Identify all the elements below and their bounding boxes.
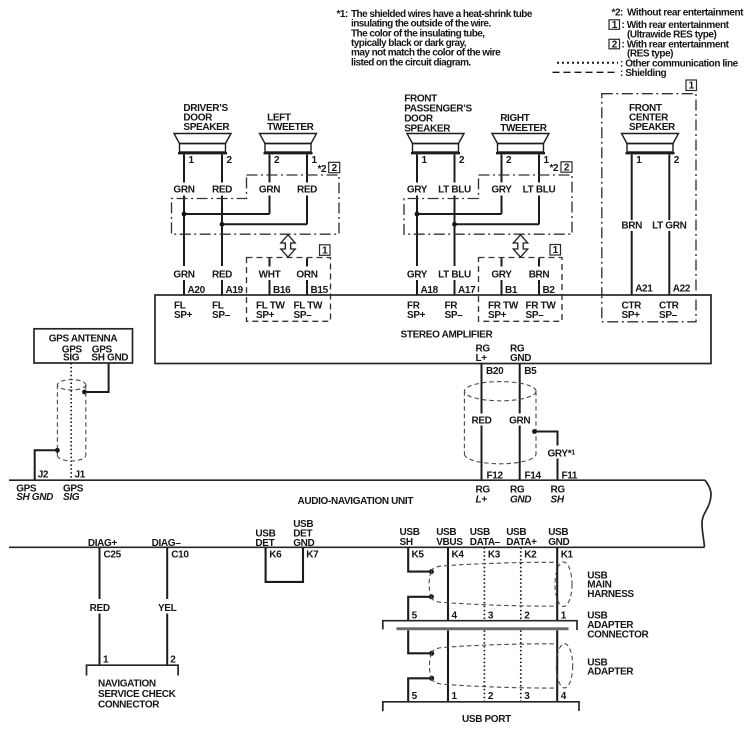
svg-text:LT GRN: LT GRN bbox=[652, 221, 687, 232]
driver's door speaker pin 2 bbox=[222, 155, 233, 183]
svg-text:2: 2 bbox=[488, 691, 494, 702]
svg-text:SP+: SP+ bbox=[407, 310, 426, 321]
svg-text:2: 2 bbox=[332, 163, 338, 174]
audio-navigation unit bottom edge bbox=[9, 546, 705, 548]
svg-text:RED: RED bbox=[212, 269, 232, 280]
left tweeter symbol bbox=[260, 134, 317, 154]
svg-text:Without rear entertainment: Without rear entertainment bbox=[627, 8, 744, 19]
svg-text:2: 2 bbox=[227, 155, 233, 166]
amp pin label RG L+ bbox=[476, 343, 491, 364]
legend boxed-2 entry bbox=[609, 39, 730, 59]
svg-text:ADAPTER: ADAPTER bbox=[587, 667, 634, 678]
driver's door speaker pin 1 bbox=[184, 155, 195, 183]
svg-text:K5: K5 bbox=[412, 550, 425, 561]
wire ORN stub bbox=[306, 258, 308, 266]
svg-text:*2: *2 bbox=[318, 164, 328, 175]
wire USB SH to adapter connector bbox=[408, 597, 431, 621]
svg-text:B5: B5 bbox=[524, 366, 537, 377]
svg-text:CONNECTOR: CONNECTOR bbox=[587, 629, 649, 640]
wire GPS SH GND bbox=[85, 363, 109, 392]
front passenger's door speaker symbol bbox=[407, 134, 464, 154]
front center speaker pin 1 bbox=[632, 155, 643, 221]
junction dot left RED bbox=[220, 222, 225, 227]
svg-text:SP–: SP– bbox=[212, 310, 231, 321]
svg-text:1: 1 bbox=[322, 246, 328, 257]
svg-text:: Shielding: : Shielding bbox=[620, 68, 667, 79]
wire joining left tweeter RED to A19 bbox=[222, 223, 307, 225]
svg-text:J2: J2 bbox=[38, 469, 49, 480]
shield junction dot GPS top bbox=[82, 390, 87, 395]
amp pin label RG GND bbox=[510, 343, 531, 364]
svg-text:SIG: SIG bbox=[63, 352, 80, 363]
wire joining right tweeter LT BLU to A17 bbox=[455, 223, 540, 225]
unit label USB DATA- bbox=[470, 527, 501, 548]
svg-text:1: 1 bbox=[553, 245, 559, 256]
svg-text:RED: RED bbox=[297, 185, 317, 196]
svg-text:GPS ANTENNA: GPS ANTENNA bbox=[49, 334, 118, 345]
driver's door speaker label bbox=[183, 103, 230, 133]
shield cylinder GPS bbox=[57, 380, 85, 461]
svg-text:2: 2 bbox=[564, 162, 570, 173]
svg-text:listed on the circuit diagram.: listed on the circuit diagram. bbox=[351, 57, 471, 68]
unit label GPS SH GND bbox=[16, 484, 53, 503]
amp pin label FL TW SP+ bbox=[256, 301, 286, 322]
pin A20 tick bbox=[184, 280, 206, 296]
stereo amplifier box bbox=[155, 295, 711, 364]
svg-text:SP–: SP– bbox=[659, 310, 678, 321]
amp pin label FL TW SP- bbox=[294, 301, 324, 322]
USB adapter label bbox=[587, 657, 634, 677]
wire joining left tweeter GRN to A20 bbox=[184, 213, 270, 215]
unit label GPS SIG bbox=[63, 484, 84, 503]
svg-text:TWEETER: TWEETER bbox=[500, 123, 548, 134]
shield junction dot GPS bottom bbox=[55, 448, 60, 453]
wire USB SH upper zigzag bbox=[408, 547, 431, 571]
svg-text:K6: K6 bbox=[269, 550, 282, 561]
svg-text:SP–: SP– bbox=[294, 310, 313, 321]
svg-text:RED: RED bbox=[90, 603, 110, 614]
wire RED B20 upper bbox=[482, 364, 505, 414]
svg-text:VBUS: VBUS bbox=[436, 537, 463, 548]
amp pin label CTR SP+ bbox=[622, 301, 643, 322]
svg-text:SP+: SP+ bbox=[488, 310, 507, 321]
USB main harness shield tube bbox=[429, 562, 572, 607]
svg-text:USB PORT: USB PORT bbox=[462, 714, 511, 725]
front passenger's door speaker pin 2 bbox=[455, 155, 466, 183]
svg-text:SERVICE CHECK: SERVICE CHECK bbox=[98, 689, 177, 700]
svg-text:SP+: SP+ bbox=[622, 310, 641, 321]
svg-text:STEREO AMPLIFIER: STEREO AMPLIFIER bbox=[401, 330, 494, 341]
double arrow right bbox=[513, 235, 527, 257]
unit label RG SH bbox=[551, 485, 566, 506]
wire USB SH lower zigzag bbox=[408, 630, 432, 653]
svg-text:SH GND: SH GND bbox=[91, 352, 128, 363]
svg-text:LT BLU: LT BLU bbox=[438, 269, 471, 280]
front center speaker label bbox=[629, 103, 676, 133]
svg-text:ORN: ORN bbox=[296, 269, 317, 280]
left tweeter pin 2 bbox=[270, 155, 281, 183]
unit label USB DET GND bbox=[293, 519, 314, 549]
unit label USB SH bbox=[400, 527, 420, 548]
svg-text:WHT: WHT bbox=[259, 269, 281, 280]
USB main harness label bbox=[587, 570, 634, 600]
svg-text:A22: A22 bbox=[673, 284, 691, 295]
wire GRN B5 upper bbox=[520, 364, 537, 414]
svg-text:GRY: GRY bbox=[407, 185, 428, 196]
shield dot USB adapter bottom bbox=[429, 676, 434, 681]
boxed 1 right bbox=[550, 245, 561, 256]
svg-text:A21: A21 bbox=[635, 284, 653, 295]
svg-text:TWEETER: TWEETER bbox=[267, 122, 315, 133]
svg-text:1: 1 bbox=[561, 611, 567, 622]
wire USB SH to usb port bbox=[408, 678, 432, 702]
right tweeter label bbox=[500, 113, 548, 134]
unit label USB DET bbox=[255, 529, 275, 549]
right tweeter pin 2 bbox=[502, 155, 513, 183]
wire RED to nav connector pin 1 bbox=[100, 614, 110, 666]
pin A17 tick bbox=[455, 280, 477, 296]
pin B16 tick bbox=[270, 280, 292, 296]
wire GRY to F11 bbox=[557, 459, 559, 481]
double arrow left bbox=[281, 235, 295, 257]
USB port bracket bbox=[383, 702, 579, 712]
svg-text:BRN: BRN bbox=[529, 269, 550, 280]
navigation service check connector label bbox=[98, 679, 177, 711]
legend other communication line bbox=[557, 59, 739, 70]
pin B2 tick bbox=[539, 280, 555, 296]
wire RED A19 vertical bbox=[221, 196, 223, 267]
wire GRY shield drain bbox=[535, 432, 558, 446]
wire WHT stub bbox=[269, 258, 271, 266]
svg-text:SP–: SP– bbox=[526, 310, 545, 321]
svg-text:GND: GND bbox=[548, 537, 569, 548]
wire USB DATA- K3 dotted bbox=[483, 547, 485, 620]
audio-navigation unit right break edge bbox=[702, 480, 711, 547]
svg-text:GRY: GRY bbox=[491, 185, 512, 196]
amp pin label FR TW SP- bbox=[526, 301, 557, 322]
pin B1 tick bbox=[502, 280, 518, 296]
boxed 2 right bbox=[561, 162, 572, 172]
svg-text:NAVIGATION: NAVIGATION bbox=[98, 679, 156, 690]
svg-text:B20: B20 bbox=[486, 366, 504, 377]
svg-text:1: 1 bbox=[103, 654, 109, 665]
shield dot USB main bottom bbox=[429, 594, 434, 599]
unit label USB GND bbox=[548, 527, 569, 548]
junction dot right LT BLU bbox=[452, 222, 457, 227]
front passenger's door speaker label bbox=[404, 94, 472, 135]
wire left tweeter GRN drop bbox=[269, 196, 271, 215]
svg-text:GRN: GRN bbox=[259, 185, 280, 196]
front center speaker pin 2 bbox=[669, 155, 680, 221]
wire LT BLU A17 vertical bbox=[454, 196, 456, 267]
svg-text:1: 1 bbox=[612, 20, 618, 31]
wire K6-K7 loop bbox=[266, 547, 303, 582]
wire BRN stub bbox=[538, 258, 540, 266]
shield dot USB adapter top bbox=[429, 651, 434, 656]
USB adapter connector interface line bbox=[383, 621, 577, 630]
svg-text:SH: SH bbox=[551, 495, 565, 506]
wire RED to F12 bbox=[481, 426, 483, 481]
dashed option box right (1) bbox=[479, 258, 563, 322]
svg-text:DATA+: DATA+ bbox=[506, 537, 537, 548]
svg-text:2: 2 bbox=[506, 155, 512, 166]
svg-text:SIG: SIG bbox=[63, 492, 80, 503]
front center speaker dash-dot box (1) bbox=[602, 94, 696, 322]
front passenger's door speaker pin 1 bbox=[417, 155, 428, 183]
wire USB VBUS lower bbox=[447, 630, 449, 701]
wire USB GND K1 bbox=[556, 547, 558, 620]
svg-text:1: 1 bbox=[452, 691, 458, 702]
svg-text:L+: L+ bbox=[476, 353, 488, 364]
right tweeter symbol bbox=[492, 134, 549, 154]
wire USB DATA- lower dotted bbox=[483, 630, 485, 701]
boxed 1 front center bbox=[686, 80, 697, 91]
wire USB VBUS K4 bbox=[447, 547, 449, 620]
wire right tweeter LT BLU drop bbox=[538, 196, 540, 225]
svg-text:DET: DET bbox=[255, 538, 274, 549]
svg-text:SP+: SP+ bbox=[256, 310, 275, 321]
legend shielding bbox=[553, 68, 667, 79]
wire GPS SIG dotted bbox=[70, 363, 72, 480]
svg-text:C10: C10 bbox=[171, 550, 189, 561]
svg-text:GRY: GRY bbox=[407, 269, 428, 280]
wire GPS shield to J2 bbox=[35, 450, 58, 480]
legend *2 entry bbox=[612, 8, 745, 19]
audio-navigation unit top edge bbox=[9, 479, 705, 481]
svg-text:LT BLU: LT BLU bbox=[438, 185, 471, 196]
svg-text:1: 1 bbox=[422, 155, 428, 166]
wire GRY A18 vertical bbox=[416, 196, 418, 267]
svg-text:DIAG–: DIAG– bbox=[152, 538, 182, 549]
svg-text:K4: K4 bbox=[452, 550, 465, 561]
wire GRN A20 vertical bbox=[183, 196, 185, 267]
shield junction dot bbox=[532, 429, 537, 434]
svg-text:J1: J1 bbox=[75, 469, 86, 480]
wire right tweeter GRY drop bbox=[501, 196, 503, 215]
svg-text:2: 2 bbox=[274, 155, 280, 166]
svg-text:DIAG+: DIAG+ bbox=[88, 538, 118, 549]
svg-text:1: 1 bbox=[189, 155, 195, 166]
svg-text:*2:: *2: bbox=[612, 8, 624, 19]
svg-text:K2: K2 bbox=[524, 550, 537, 561]
svg-text:SH: SH bbox=[400, 537, 413, 548]
svg-text:SH GND: SH GND bbox=[16, 492, 53, 503]
svg-text:2: 2 bbox=[674, 155, 680, 166]
svg-text:SPEAKER: SPEAKER bbox=[629, 122, 676, 133]
legend boxed-1 entry bbox=[609, 20, 730, 41]
wire USB GND lower bbox=[556, 630, 558, 701]
svg-text:*2: *2 bbox=[550, 163, 560, 174]
left tweeter label bbox=[267, 113, 315, 134]
svg-text:GRN: GRN bbox=[509, 415, 530, 426]
GPS antenna box bbox=[34, 329, 133, 363]
boxed 2 left bbox=[329, 162, 340, 172]
unit label RG L+ bbox=[476, 485, 491, 506]
svg-text:RED: RED bbox=[212, 185, 232, 196]
dash-dot option box right (*2/2) bbox=[404, 175, 572, 234]
svg-text:GND: GND bbox=[510, 353, 531, 364]
svg-text:5: 5 bbox=[412, 611, 418, 622]
boxed 1 left bbox=[320, 245, 331, 256]
amp pin label FR SP+ bbox=[407, 301, 426, 322]
svg-text:HARNESS: HARNESS bbox=[587, 589, 634, 600]
svg-text:AUDIO-NAVIGATION UNIT: AUDIO-NAVIGATION UNIT bbox=[298, 496, 414, 507]
wire LT GRN center vertical bbox=[668, 231, 670, 296]
wire USB DATA+ K2 dotted bbox=[520, 547, 522, 620]
unit label USB VBUS bbox=[436, 527, 463, 548]
svg-text:2: 2 bbox=[170, 654, 176, 665]
svg-text:SP–: SP– bbox=[445, 310, 464, 321]
wire BRN center vertical bbox=[631, 231, 633, 296]
driver's door speaker symbol bbox=[174, 134, 231, 154]
wire joining right tweeter GRY to A18 bbox=[417, 213, 502, 215]
svg-text:RED: RED bbox=[471, 415, 491, 426]
svg-text:YEL: YEL bbox=[158, 603, 177, 614]
svg-text:GND: GND bbox=[510, 495, 531, 506]
wire left tweeter RED drop bbox=[306, 196, 308, 225]
amp pin label FL SP- bbox=[212, 301, 231, 322]
svg-text:2: 2 bbox=[612, 39, 618, 50]
svg-text:SPEAKER: SPEAKER bbox=[183, 122, 230, 133]
GPS SH GND pin label bbox=[91, 344, 128, 363]
svg-text:DATA–: DATA– bbox=[470, 537, 501, 548]
svg-text:*1:: *1: bbox=[337, 9, 348, 20]
unit label USB DATA+ bbox=[506, 527, 537, 548]
amp pin label FL SP+ bbox=[174, 301, 193, 322]
note *1 text block bbox=[337, 9, 533, 69]
junction dot left GRN bbox=[182, 212, 187, 217]
right tweeter pin 1 bbox=[539, 155, 550, 183]
pin C10 bbox=[167, 547, 189, 599]
svg-text:GRN: GRN bbox=[173, 269, 194, 280]
svg-text:1: 1 bbox=[636, 155, 642, 166]
pin A19 tick bbox=[222, 280, 244, 296]
USB adapter connector label bbox=[587, 611, 649, 641]
svg-text:BRN: BRN bbox=[621, 221, 642, 232]
svg-text:3: 3 bbox=[488, 611, 494, 622]
svg-text:GRY*1: GRY*1 bbox=[548, 448, 576, 459]
svg-text:C25: C25 bbox=[104, 550, 122, 561]
svg-text:5: 5 bbox=[412, 691, 418, 702]
dashed option box left (1) bbox=[247, 258, 331, 322]
pin A18 tick bbox=[417, 280, 439, 296]
wire YEL to nav connector pin 2 bbox=[167, 614, 176, 666]
svg-text:K1: K1 bbox=[561, 550, 574, 561]
svg-text:GRN: GRN bbox=[173, 185, 194, 196]
svg-text:GND: GND bbox=[293, 538, 314, 549]
GPS SIG pin label bbox=[62, 344, 83, 363]
pin B15 tick bbox=[307, 280, 329, 296]
svg-text:4: 4 bbox=[561, 691, 567, 702]
pin C25 bbox=[100, 547, 122, 599]
svg-text:4: 4 bbox=[452, 611, 458, 622]
front center speaker symbol bbox=[622, 134, 679, 154]
svg-text:3: 3 bbox=[524, 691, 530, 702]
junction dot right GRY bbox=[415, 212, 420, 217]
svg-text:K7: K7 bbox=[306, 550, 319, 561]
amp pin label FR SP- bbox=[445, 301, 464, 322]
svg-text:CONNECTOR: CONNECTOR bbox=[98, 700, 160, 711]
svg-text:GRY: GRY bbox=[491, 269, 512, 280]
svg-text:SP+: SP+ bbox=[174, 310, 193, 321]
unit label RG GND bbox=[510, 485, 531, 506]
USB adapter shield tube bbox=[429, 644, 572, 688]
wire GRN to F14 bbox=[519, 426, 521, 481]
svg-text:2: 2 bbox=[459, 155, 465, 166]
dash-dot option box left (*2/2) bbox=[172, 175, 340, 234]
wire USB DATA+ lower dotted bbox=[520, 630, 522, 701]
amp pin label FR TW SP+ bbox=[488, 301, 519, 322]
svg-text:K3: K3 bbox=[488, 550, 501, 561]
svg-text:LT BLU: LT BLU bbox=[523, 185, 556, 196]
wire GRY stub bbox=[501, 258, 503, 266]
left tweeter pin 1 bbox=[307, 155, 318, 183]
navigation service check connector bracket bbox=[87, 665, 179, 675]
USB adapter connector blade bar bbox=[396, 627, 568, 630]
amp pin label CTR SP- bbox=[659, 301, 680, 322]
svg-text:L+: L+ bbox=[476, 495, 488, 506]
shield dot USB main top bbox=[429, 569, 434, 574]
shield cylinder RG wires bbox=[464, 382, 536, 464]
svg-text:1: 1 bbox=[689, 81, 695, 92]
svg-text:2: 2 bbox=[524, 611, 530, 622]
